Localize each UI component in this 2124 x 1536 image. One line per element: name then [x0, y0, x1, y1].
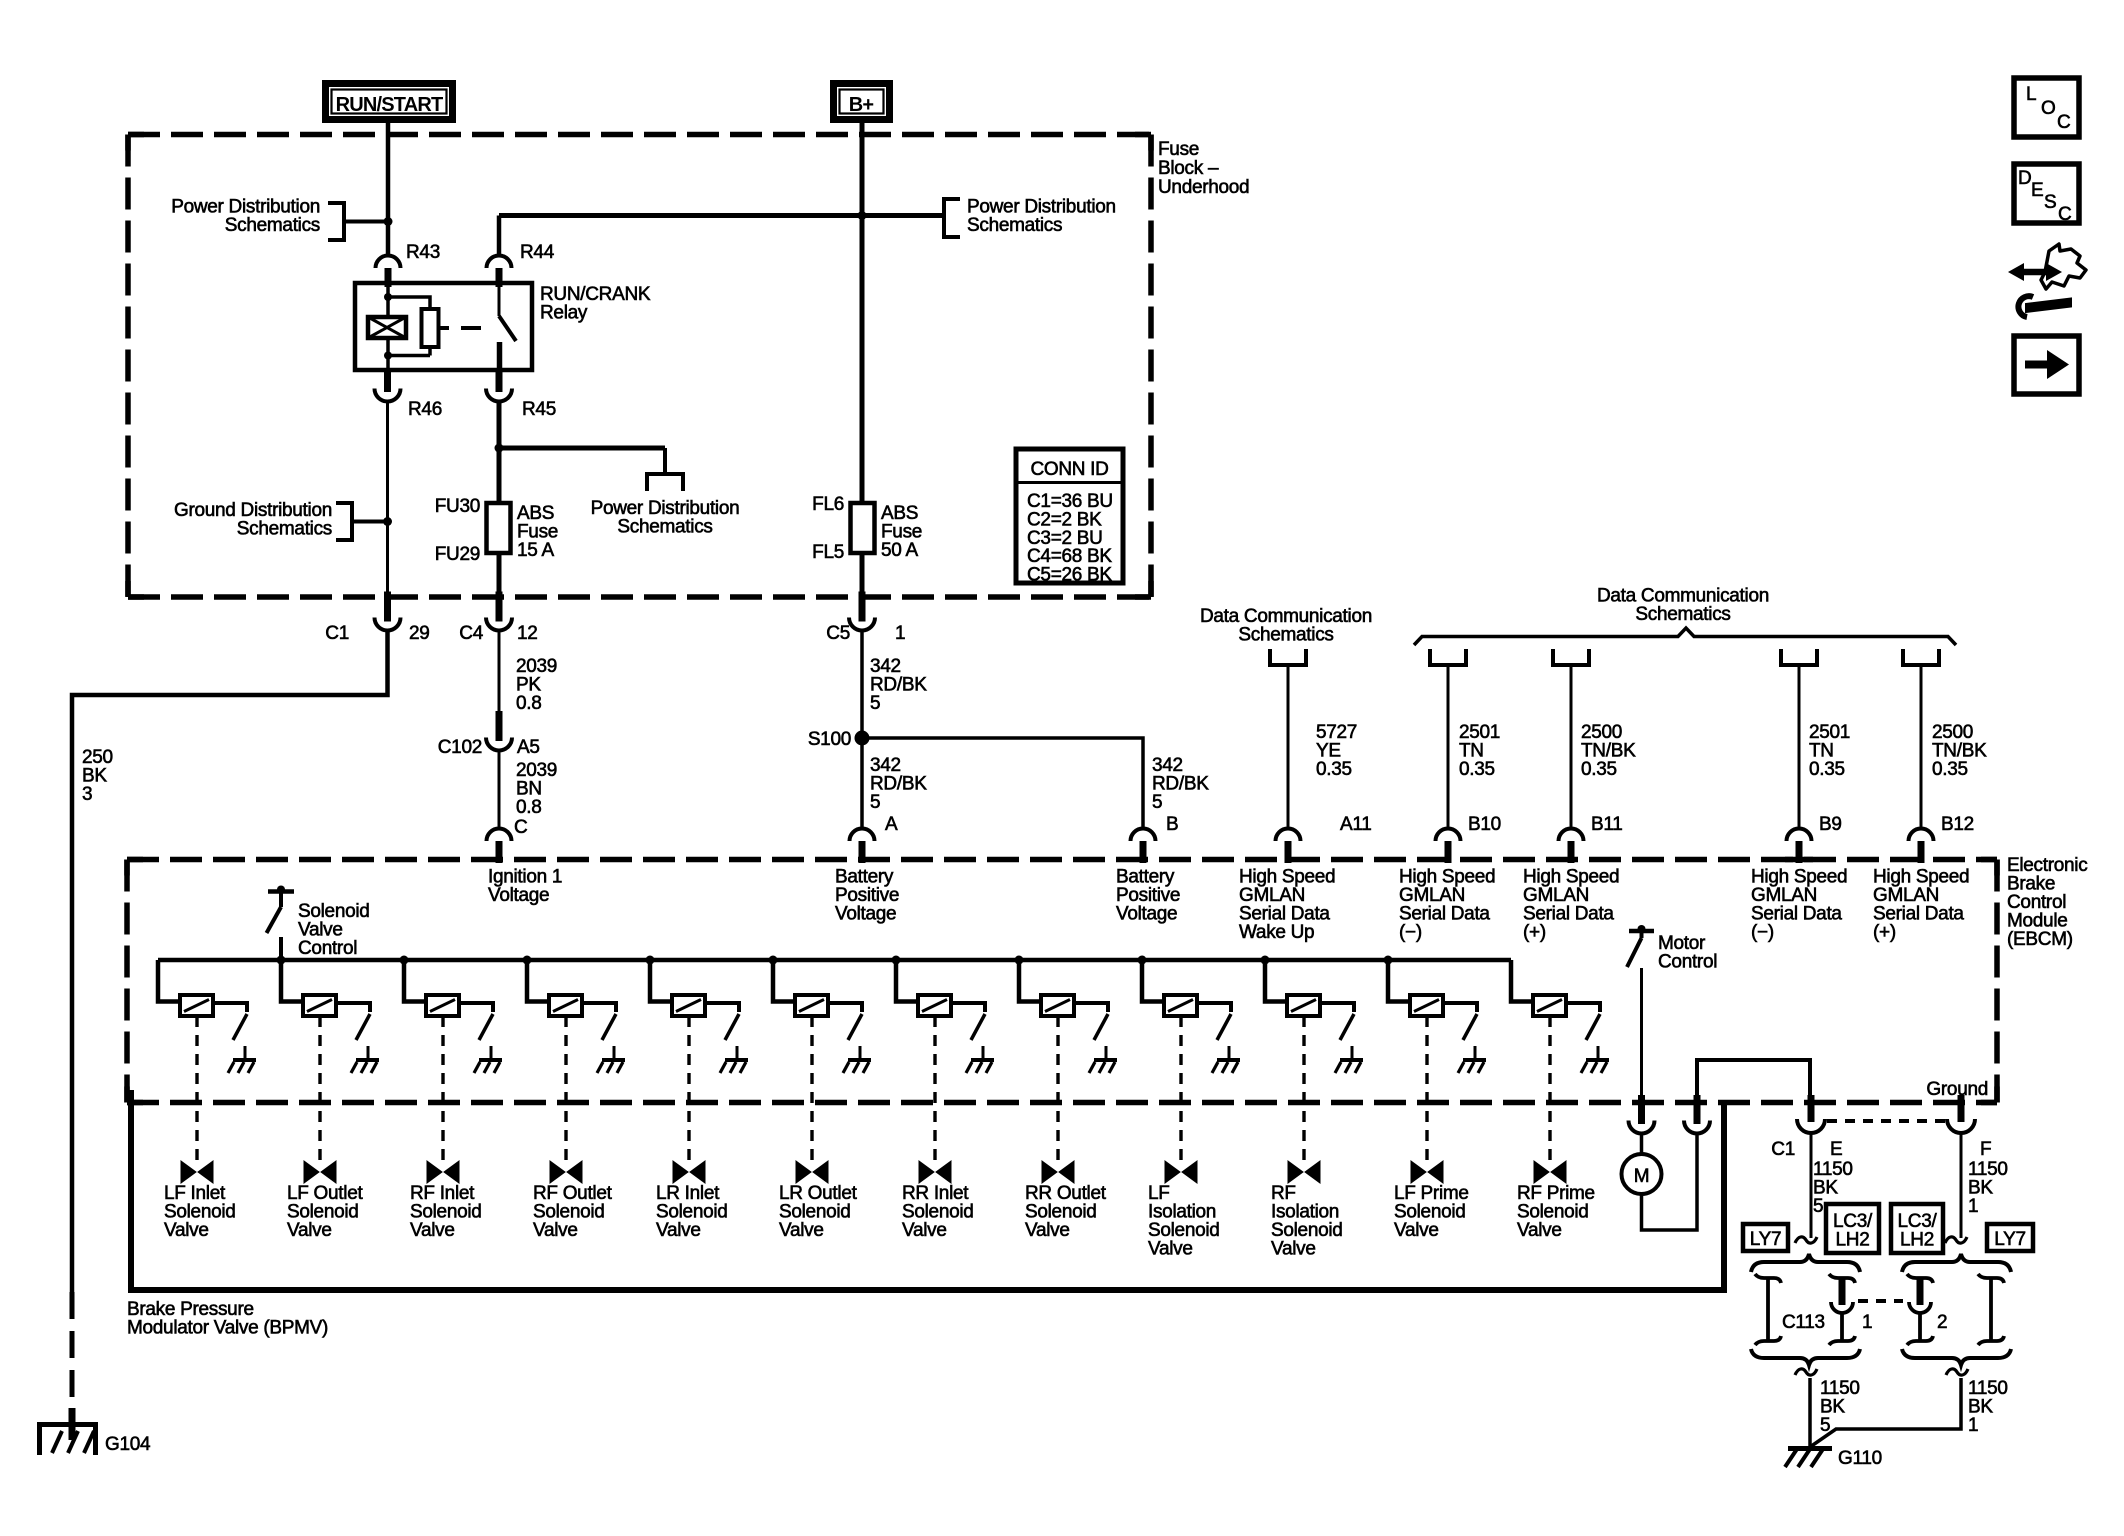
svg-text:5: 5 [870, 693, 880, 714]
svg-text:L: L [2026, 84, 2036, 105]
svg-text:12: 12 [517, 623, 538, 644]
svg-text:LY7: LY7 [1994, 1229, 2026, 1250]
svg-text:(+): (+) [1523, 922, 1546, 943]
svg-text:5: 5 [1813, 1196, 1823, 1217]
svg-text:Valve: Valve [656, 1220, 701, 1241]
svg-text:A: A [885, 814, 898, 835]
svg-text:FU30: FU30 [435, 496, 480, 517]
svg-text:C102: C102 [438, 737, 482, 758]
svg-text:E: E [1830, 1139, 1842, 1160]
svg-text:Ground: Ground [1926, 1079, 1988, 1100]
svg-text:(+): (+) [1873, 922, 1896, 943]
svg-text:Valve: Valve [902, 1220, 947, 1241]
svg-text:Voltage: Voltage [1116, 904, 1177, 925]
svg-text:0.35: 0.35 [1581, 759, 1617, 780]
svg-text:B9: B9 [1819, 814, 1842, 835]
svg-text:1: 1 [895, 623, 905, 644]
svg-text:R45: R45 [522, 399, 556, 420]
svg-text:Valve: Valve [1271, 1239, 1316, 1260]
svg-text:Valve: Valve [1025, 1220, 1070, 1241]
svg-text:Control: Control [298, 938, 357, 959]
svg-text:Valve: Valve [410, 1220, 455, 1241]
svg-text:A11: A11 [1340, 814, 1372, 835]
svg-text:G110: G110 [1838, 1448, 1882, 1469]
svg-text:0.35: 0.35 [1316, 759, 1352, 780]
svg-text:E: E [2031, 180, 2043, 201]
svg-text:LY7: LY7 [1750, 1229, 1782, 1250]
svg-text:2: 2 [1937, 1312, 1947, 1333]
svg-text:50 A: 50 A [881, 540, 918, 561]
svg-text:C: C [2058, 204, 2071, 225]
svg-text:Control: Control [1658, 952, 1717, 973]
svg-text:FL6: FL6 [812, 494, 844, 515]
svg-text:FU29: FU29 [435, 544, 480, 565]
svg-text:Schematics: Schematics [967, 215, 1062, 236]
svg-text:S100: S100 [808, 729, 851, 750]
svg-text:0.35: 0.35 [1809, 759, 1845, 780]
svg-text:B12: B12 [1941, 814, 1974, 835]
svg-text:CONN ID: CONN ID [1030, 459, 1108, 480]
svg-text:Modulator Valve (BPMV): Modulator Valve (BPMV) [127, 1318, 328, 1339]
svg-text:M: M [1634, 1166, 1650, 1187]
svg-text:Block –: Block – [1158, 158, 1219, 179]
svg-text:C: C [2057, 112, 2070, 133]
svg-text:1: 1 [1968, 1196, 1978, 1217]
svg-text:0.35: 0.35 [1932, 759, 1968, 780]
svg-text:C: C [514, 817, 527, 838]
svg-text:1: 1 [1862, 1312, 1872, 1333]
svg-text:R46: R46 [408, 399, 442, 420]
svg-text:(−): (−) [1399, 922, 1422, 943]
svg-text:5: 5 [870, 792, 880, 813]
svg-text:R44: R44 [520, 242, 555, 263]
svg-text:Schematics: Schematics [1635, 604, 1730, 625]
svg-text:Underhood: Underhood [1158, 177, 1249, 198]
svg-text:G104: G104 [105, 1434, 151, 1455]
svg-text:D: D [2018, 168, 2031, 189]
svg-text:Voltage: Voltage [835, 904, 896, 925]
svg-text:15 A: 15 A [517, 540, 554, 561]
svg-text:1: 1 [1968, 1415, 1978, 1436]
svg-text:Valve: Valve [533, 1220, 578, 1241]
svg-text:F: F [1980, 1139, 1991, 1160]
svg-text:R43: R43 [406, 242, 440, 263]
svg-text:O: O [2041, 98, 2055, 119]
svg-text:Schematics: Schematics [237, 519, 332, 540]
svg-text:Schematics: Schematics [617, 517, 712, 538]
svg-text:RUN/START: RUN/START [336, 94, 443, 116]
svg-text:C5=26 BK: C5=26 BK [1027, 565, 1112, 586]
svg-text:Valve: Valve [779, 1220, 824, 1241]
svg-text:Schematics: Schematics [225, 215, 320, 236]
svg-text:LH2: LH2 [1900, 1230, 1934, 1251]
svg-text:Valve: Valve [164, 1220, 209, 1241]
svg-text:Wake Up: Wake Up [1239, 922, 1314, 943]
svg-text:3: 3 [82, 784, 92, 805]
svg-text:(EBCM): (EBCM) [2007, 929, 2073, 950]
svg-text:FL5: FL5 [812, 542, 844, 563]
svg-text:Valve: Valve [1394, 1220, 1439, 1241]
svg-text:0.35: 0.35 [1459, 759, 1495, 780]
svg-text:LH2: LH2 [1836, 1230, 1870, 1251]
svg-text:B10: B10 [1468, 814, 1501, 835]
svg-text:(−): (−) [1751, 922, 1774, 943]
svg-text:B: B [1166, 814, 1178, 835]
svg-text:5: 5 [1152, 792, 1162, 813]
svg-text:C4: C4 [459, 623, 483, 644]
svg-text:C5: C5 [826, 623, 850, 644]
svg-text:A5: A5 [517, 737, 540, 758]
svg-text:Schematics: Schematics [1238, 625, 1333, 646]
svg-text:C1: C1 [325, 623, 349, 644]
svg-text:29: 29 [409, 623, 430, 644]
svg-text:B11: B11 [1591, 814, 1623, 835]
svg-text:Fuse: Fuse [1158, 139, 1199, 160]
svg-text:C113: C113 [1782, 1312, 1825, 1333]
svg-text:0.8: 0.8 [516, 797, 542, 818]
svg-text:Voltage: Voltage [488, 885, 549, 906]
svg-text:5: 5 [1820, 1415, 1830, 1436]
svg-text:0.8: 0.8 [516, 693, 542, 714]
svg-text:C1: C1 [1771, 1139, 1795, 1160]
svg-text:Relay: Relay [540, 303, 588, 324]
svg-text:S: S [2044, 192, 2056, 213]
svg-text:B+: B+ [849, 94, 874, 116]
svg-text:Valve: Valve [1148, 1239, 1193, 1260]
svg-text:Valve: Valve [1517, 1220, 1562, 1241]
svg-text:Valve: Valve [287, 1220, 332, 1241]
